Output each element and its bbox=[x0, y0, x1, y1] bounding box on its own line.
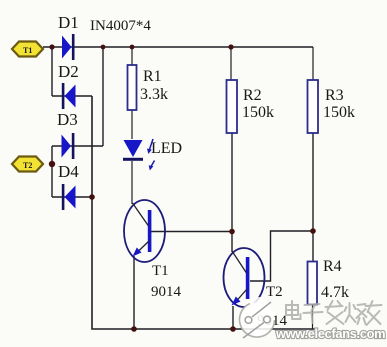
wire T1 emitter to bottom rail bbox=[133, 256, 135, 329]
resistor R1 bbox=[128, 65, 137, 110]
node C dot (R3/R4 divider) bbox=[310, 228, 316, 234]
node R2 top dot bbox=[228, 44, 233, 49]
label R4 value bbox=[321, 258, 349, 301]
svg-text:IN4007*4: IN4007*4 bbox=[90, 18, 151, 34]
svg-text:4.7k: 4.7k bbox=[321, 284, 349, 301]
wire D3 row bbox=[52, 145, 103, 147]
svg-text:D1: D1 bbox=[58, 13, 79, 32]
wire R4 bottom lead bbox=[312, 305, 314, 330]
transistor T1 bbox=[124, 200, 165, 262]
svg-text:D2: D2 bbox=[58, 62, 79, 81]
label R2 value bbox=[242, 87, 274, 121]
node B dot (T1 base / R2 / T2 collector) bbox=[229, 229, 235, 235]
terminal T2 bbox=[12, 157, 43, 172]
svg-text:www.elecfans.com: www.elecfans.com bbox=[275, 326, 385, 341]
svg-text:R2: R2 bbox=[243, 87, 262, 104]
resistor R2 bbox=[227, 80, 238, 133]
wire R3 top riser bbox=[312, 47, 314, 80]
resistor R4 bbox=[308, 262, 318, 305]
wire LED cathode to T1 collector bbox=[131, 161, 133, 204]
LED D5 bbox=[123, 139, 155, 171]
label T1 designator bbox=[151, 263, 182, 300]
node T1 emitter bottom dot bbox=[131, 326, 137, 332]
node T1 junction dot bbox=[49, 44, 54, 49]
wire D3 cathode riser to top rail bbox=[102, 47, 104, 146]
label R3 value bbox=[323, 87, 355, 121]
svg-text:T2: T2 bbox=[266, 284, 283, 300]
svg-text:LED: LED bbox=[151, 140, 182, 157]
node R1 top dot bbox=[130, 45, 135, 50]
label R1 value bbox=[140, 68, 168, 103]
svg-text:150k: 150k bbox=[323, 104, 355, 121]
svg-text:D4: D4 bbox=[58, 162, 79, 181]
wire riser T1 node to D2 row bbox=[51, 47, 53, 96]
svg-text:9014: 9014 bbox=[151, 284, 182, 300]
wire R2 top lead bbox=[230, 47, 232, 80]
diode D4 bbox=[62, 184, 76, 210]
wire negative rail (D2/D4 right side down to bottom) bbox=[92, 96, 316, 329]
diode D3 bbox=[62, 133, 75, 159]
node D4 negative rail dot bbox=[89, 194, 95, 200]
wire T2 emitter to bottom rail bbox=[232, 306, 234, 329]
wire D2 row bbox=[52, 95, 92, 97]
terminal T1 bbox=[12, 42, 43, 57]
svg-text:R4: R4 bbox=[323, 258, 342, 275]
wire R2 bottom to node B bbox=[231, 133, 233, 252]
wire R1 bottom to LED bbox=[131, 110, 133, 139]
svg-text:R1: R1 bbox=[143, 68, 162, 85]
svg-text:3.3k: 3.3k bbox=[140, 86, 168, 103]
diode D1 bbox=[62, 34, 75, 60]
svg-text:T2: T2 bbox=[23, 161, 32, 170]
wire R1 top lead bbox=[131, 47, 133, 65]
svg-text:T1: T1 bbox=[152, 263, 169, 279]
diode D2 bbox=[62, 83, 76, 109]
wire T1 base to node B bbox=[151, 231, 232, 233]
wire T2 node riser (D3 row to D4 row) bbox=[51, 146, 53, 197]
svg-text:R3: R3 bbox=[325, 87, 344, 104]
svg-text:T1: T1 bbox=[23, 46, 32, 55]
svg-text:150k: 150k bbox=[242, 104, 274, 121]
wire D4 row bbox=[52, 196, 92, 198]
transistor T2 bbox=[224, 248, 265, 307]
node T2 emitter bottom dot bbox=[230, 326, 236, 332]
watermark logo circle bbox=[240, 297, 275, 338]
svg-text:D3: D3 bbox=[57, 110, 78, 129]
node T2 input dot bbox=[49, 161, 55, 167]
watermark chinese characters 电子发烧友 (approximated strokes) bbox=[286, 301, 382, 325]
resistor R3 bbox=[308, 80, 319, 133]
label T2 designator bbox=[257, 284, 288, 329]
wire R3 bottom to R4 top bbox=[312, 133, 314, 262]
wire top rail bbox=[43, 46, 313, 48]
node D3 riser dot bbox=[101, 45, 106, 50]
wire T2 base to divider node C bbox=[250, 231, 313, 281]
